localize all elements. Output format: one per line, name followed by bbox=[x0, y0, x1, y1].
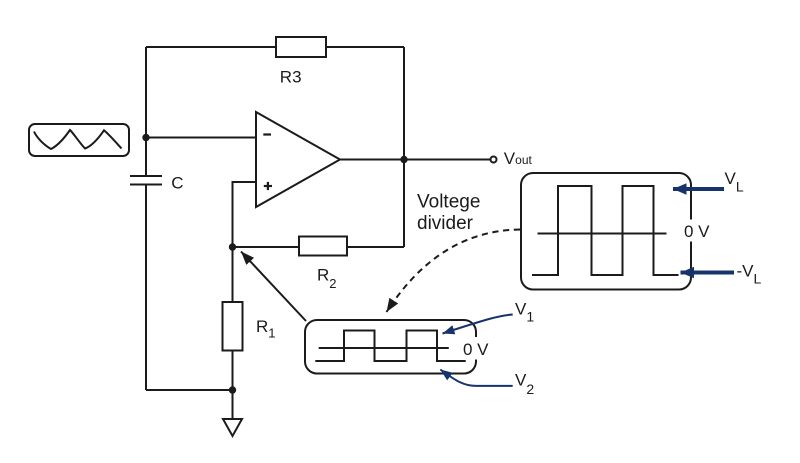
svg-text:-VL: -VL bbox=[737, 262, 762, 287]
op-amp plus sign bbox=[264, 182, 272, 190]
dashed arrow to divider waveform bbox=[387, 230, 521, 313]
wire: non-inverting input bbox=[233, 182, 257, 247]
label 0 V (divider waveform) bbox=[462, 337, 491, 360]
resistor R1 bbox=[223, 302, 243, 351]
wire: to Vout terminal bbox=[404, 159, 490, 161]
node: ground junction bbox=[229, 386, 236, 393]
small square wave 0V axis bbox=[319, 347, 449, 349]
wire: output vertical bus bbox=[403, 47, 405, 247]
wire: R1 to ground node bbox=[232, 351, 234, 391]
svg-text:0 V: 0 V bbox=[463, 340, 489, 359]
wire: top feedback right segment bbox=[326, 46, 404, 48]
arrow: divider waveform to feedback node bbox=[241, 252, 306, 322]
wire: top feedback left segment bbox=[146, 46, 276, 48]
arrow V1 bbox=[443, 315, 513, 334]
wire: bottom horizontal to ground node bbox=[146, 389, 233, 391]
node: output junction bbox=[400, 156, 407, 163]
wire: node to R1 bbox=[232, 247, 234, 302]
svg-text:C: C bbox=[171, 173, 183, 192]
capacitor C bbox=[130, 176, 162, 185]
Vout terminal circle bbox=[491, 157, 497, 163]
sawtooth waveform trace bbox=[34, 130, 122, 149]
svg-text:VL: VL bbox=[725, 169, 744, 195]
svg-text:R2: R2 bbox=[317, 266, 337, 292]
small square wave trace bbox=[315, 331, 465, 362]
arrow -VL bbox=[681, 271, 735, 275]
wire: node to R2 bbox=[233, 246, 300, 248]
arrow V2 bbox=[440, 370, 512, 386]
svg-text:Voltege: Voltege bbox=[417, 192, 480, 213]
arrow VL bbox=[673, 187, 724, 191]
op-amp minus sign bbox=[263, 133, 271, 135]
node: feedback junction bbox=[229, 243, 236, 250]
wire: left vertical lower (capacitor to bottom) bbox=[145, 185, 147, 390]
waveform box (triangle/sawtooth) bbox=[29, 124, 129, 156]
resistor R2 bbox=[299, 237, 347, 256]
square wave 0V axis bbox=[538, 233, 667, 235]
node: capacitor / inverting input junction bbox=[142, 134, 149, 141]
svg-text:V2: V2 bbox=[515, 371, 534, 398]
svg-text:R3: R3 bbox=[280, 68, 302, 87]
wire: op-amp output bbox=[340, 159, 404, 161]
wire: inverting input bbox=[146, 137, 256, 139]
divider waveform box (V1/V2 square wave) bbox=[305, 320, 476, 374]
svg-text:Vout: Vout bbox=[504, 149, 533, 168]
svg-text:0 V: 0 V bbox=[684, 222, 710, 241]
svg-text:R1: R1 bbox=[256, 317, 276, 340]
wire: ground stem bbox=[232, 390, 234, 419]
ground bbox=[223, 419, 242, 436]
op-amp U1 bbox=[256, 112, 340, 207]
svg-text:V1: V1 bbox=[515, 300, 534, 325]
svg-text:divider: divider bbox=[417, 213, 474, 234]
wire: R2 to output bus bbox=[347, 246, 404, 248]
square wave trace VL bbox=[532, 186, 679, 275]
resistor R3 bbox=[276, 37, 326, 57]
wire: left vertical upper (to capacitor) bbox=[145, 47, 147, 175]
output waveform box (VL square wave) bbox=[521, 173, 691, 290]
label 0 V (output waveform) bbox=[682, 220, 713, 242]
